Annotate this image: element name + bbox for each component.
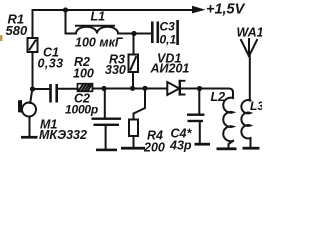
wire +1.5V rail (33, 9, 193, 11)
svg-text:C3: C3 (160, 20, 176, 34)
ground bar under L2 (217, 147, 237, 150)
label 1000p (65, 103, 98, 117)
wire R2 to diode (93, 88, 168, 90)
ground bar under R4 (121, 147, 145, 150)
label МКЭ332 (39, 128, 87, 142)
label R3 (109, 53, 125, 67)
resistor R1 (28, 10, 38, 89)
capacitor C1 (49, 84, 58, 103)
node junction R3 bottom (130, 86, 135, 91)
ground bar under L3 (243, 147, 260, 150)
svg-text:0,33: 0,33 (38, 57, 64, 71)
label C3 (160, 20, 176, 34)
label 200 (143, 141, 165, 155)
svg-text:+1,5V: +1,5V (206, 1, 246, 17)
wire C3 to diode cathode (176, 20, 179, 45)
resistor R3 (129, 34, 139, 89)
label 100 (73, 67, 94, 81)
svg-text:WA1: WA1 (237, 26, 263, 40)
svg-text:100 мкГ: 100 мкГ (75, 36, 124, 50)
node junction L1/R3/C3 (131, 31, 136, 36)
label L1 (91, 10, 106, 24)
label R2 (74, 55, 90, 69)
svg-text:1000p: 1000p (65, 103, 98, 117)
label АИ201 (150, 62, 190, 76)
node junction R4 tap (142, 86, 147, 91)
svg-text:43p: 43p (169, 139, 192, 153)
ground bar under M1 (21, 136, 38, 139)
wire node to C1 (33, 88, 50, 90)
label C1 (43, 46, 59, 60)
inductor L1 (66, 10, 152, 34)
svg-text:L2: L2 (211, 90, 226, 104)
label L3 (250, 99, 264, 113)
label 0,33 (38, 57, 64, 71)
label C2 (74, 92, 90, 106)
label 0,1 (160, 33, 177, 47)
label R4 (147, 129, 163, 143)
antenna WA1 (241, 39, 257, 101)
svg-text:АИ201: АИ201 (150, 62, 190, 76)
ground bar under C4 (195, 143, 211, 146)
wire C1 to R2 (58, 88, 78, 90)
svg-text:0,1: 0,1 (160, 33, 177, 47)
svg-text:L1: L1 (91, 10, 106, 24)
label 100 мкГ (75, 36, 124, 50)
inductor L3 (241, 100, 250, 147)
label 330 (105, 63, 126, 77)
label VD1 (157, 52, 181, 66)
node junction R1/C1/M1 (30, 86, 35, 91)
capacitor C4 (187, 89, 205, 144)
resistor R2 (78, 84, 93, 92)
capacitor C2 (92, 89, 122, 150)
microphone M1 (18, 89, 36, 136)
node junction on rail for L1 (63, 7, 68, 12)
svg-text:580: 580 (6, 23, 28, 38)
label 580 (6, 23, 28, 38)
inductor L2 (223, 98, 233, 148)
label 43p (169, 139, 192, 153)
svg-text:200: 200 (143, 141, 165, 155)
label L2 (211, 90, 226, 104)
label C4* (171, 127, 193, 141)
label R1 (8, 12, 25, 27)
tunnel diode VD1 (167, 80, 184, 96)
ground bar under C2 (96, 149, 117, 152)
node junction C2 tap (101, 86, 106, 91)
svg-text:L3: L3 (250, 99, 262, 113)
power arrow +1,5V (192, 6, 206, 14)
label WA1 (237, 26, 264, 40)
svg-text:330: 330 (105, 63, 126, 77)
capacitor C3 (151, 22, 159, 44)
label +1,5V (206, 1, 246, 17)
svg-text:100: 100 (73, 67, 94, 81)
label М1 (40, 118, 57, 132)
node junction C4 tap (197, 86, 202, 91)
svg-text:МКЭ332: МКЭ332 (39, 128, 87, 142)
wire diode to L2 (181, 89, 233, 99)
page-edge speck (0, 35, 3, 41)
resistor R4 (129, 89, 145, 148)
